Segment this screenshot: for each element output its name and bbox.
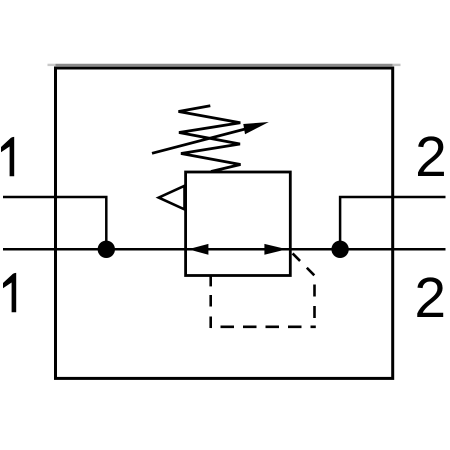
pilot line dashed diagonal xyxy=(293,253,315,275)
flow arrowhead right xyxy=(264,244,286,255)
pilot line dashed bottom horizontal xyxy=(211,325,316,328)
junction node right xyxy=(331,241,348,258)
wire: upper-left port line xyxy=(3,197,106,249)
wire: upper-right port line xyxy=(340,197,445,249)
flow arrowhead left xyxy=(188,244,208,255)
enclosure box xyxy=(56,68,393,378)
wire: main flow line 1-2 xyxy=(3,248,446,251)
spring xyxy=(179,106,241,172)
pilot line dashed right vertical xyxy=(313,285,316,319)
svg-text:2: 2 xyxy=(414,266,446,330)
relief vent triangle xyxy=(159,186,185,210)
regulator valve body xyxy=(186,172,291,276)
svg-text:2: 2 xyxy=(415,125,447,189)
port 1 lower label xyxy=(3,273,16,312)
port 1 upper label xyxy=(1,137,14,176)
gray top rule xyxy=(48,64,401,66)
junction node left xyxy=(98,241,115,258)
adjustment arrow shaft xyxy=(152,125,259,153)
adjustment arrowhead xyxy=(243,122,268,134)
pilot stub solid xyxy=(209,276,212,287)
pilot line dashed left vertical xyxy=(209,295,212,328)
